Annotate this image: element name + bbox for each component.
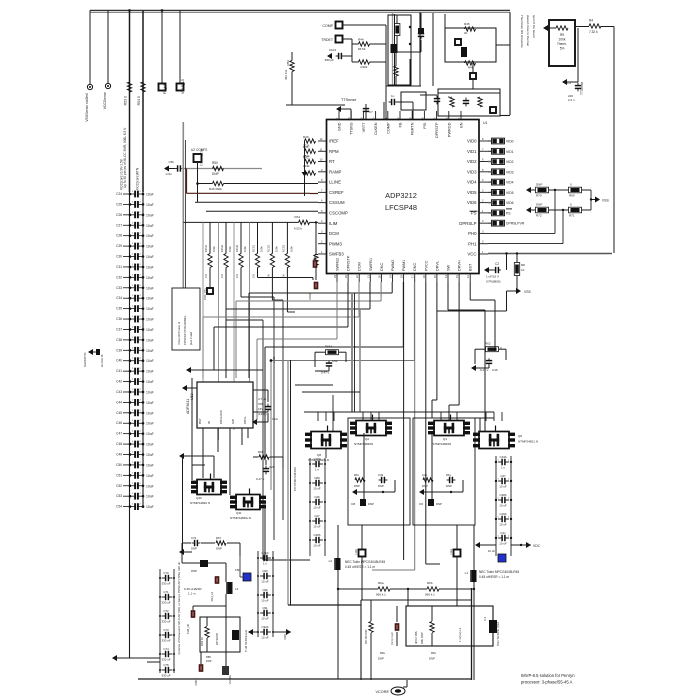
svg-text:10 uF: 10 uF: [261, 636, 269, 640]
svg-text:RAMP: RAMP: [329, 169, 342, 174]
svg-text:VID3: VID3: [506, 170, 514, 174]
svg-text:R4: R4: [589, 19, 593, 23]
node PH3 red tp: [215, 577, 219, 584]
svg-text:C5b: C5b: [235, 568, 241, 572]
svg-text:CLKEN: CLKEN: [374, 122, 378, 135]
wire phase1 box: [413, 418, 475, 525]
node PH3 tp blue: [243, 573, 251, 581]
capacitor C51 10uF: [123, 474, 130, 476]
svg-text:Q1: Q1: [443, 437, 447, 441]
svg-text:10 uF: 10 uF: [499, 485, 507, 489]
resistor R62: [486, 347, 499, 352]
resistor R60b: [259, 455, 269, 459]
capacitor C27 10uF: [123, 224, 130, 226]
wire cl join: [393, 51, 422, 53]
wire PH0: [488, 232, 555, 234]
wire cssum: [195, 201, 318, 203]
svg-text:(mm) 1 uF: (mm) 1 uF: [390, 632, 394, 645]
resistor R54: [141, 82, 145, 92]
wire left col to bottom: [142, 662, 144, 677]
svg-text:VCORE: VCORE: [228, 675, 232, 684]
svg-text:spot of the board: spot of the board: [532, 15, 536, 38]
svg-text:C72: C72: [163, 609, 169, 613]
svg-text:10uF: 10uF: [146, 193, 154, 197]
svg-text:R62: R62: [485, 342, 491, 346]
svg-text:10uF: 10uF: [146, 318, 154, 322]
svg-text:U1b: U1b: [354, 549, 358, 555]
svg-text:10uF: 10uF: [146, 297, 154, 301]
svg-text:C24: C24: [116, 192, 122, 196]
wire u13 left: [185, 387, 197, 389]
capacitor C4b3 1 n: [260, 557, 264, 559]
svg-text:10 uF: 10 uF: [261, 599, 269, 603]
svg-text:TTSense: TTSense: [580, 81, 584, 95]
svg-text:Up to 30 pieces of MLCC 9MR, 9: Up to 30 pieces of MLCC 9MR, 906L 6.3 V: [123, 127, 127, 188]
capacitor C90 10 uF: [260, 575, 264, 577]
svg-text:C46: C46: [116, 421, 122, 425]
capacitor C459 1 n: [312, 463, 316, 465]
svg-text:330 uF: 330 uF: [162, 674, 171, 678]
svg-text:L3: L3: [235, 587, 239, 591]
node TRDET test pad: [336, 36, 343, 43]
svg-text:C43: C43: [116, 390, 122, 394]
svg-text:100k: 100k: [559, 38, 566, 42]
svg-text:330 uF: 330 uF: [162, 582, 171, 586]
svg-text:2.2 n: 2.2 n: [568, 98, 575, 102]
svg-text:10 uF: 10 uF: [313, 487, 321, 491]
svg-text:PH6_U5: PH6_U5: [186, 623, 190, 633]
transistor Q41 NTMFS4846N: [236, 495, 260, 510]
node VSS arrow2: [516, 288, 521, 294]
svg-text:RPH3: RPH3: [235, 245, 239, 252]
node C2 gnd arrow: [484, 267, 489, 273]
resistor RCS3: [285, 254, 289, 268]
node tp in box: [455, 39, 461, 45]
svg-text:C4b: C4b: [422, 473, 428, 477]
svg-text:DPRSLP: DPRSLP: [459, 221, 476, 226]
svg-text:R50: R50: [212, 161, 218, 165]
svg-text:VID5: VID5: [506, 191, 514, 195]
svg-text:DNP: DNP: [429, 657, 435, 661]
wire comp: [343, 24, 387, 26]
wire csref gray pair: [182, 122, 184, 290]
svg-text:DNC: DNC: [380, 263, 384, 271]
node ladder tp: [207, 288, 213, 294]
svg-text:452 1%: 452 1%: [284, 69, 288, 80]
svg-text:U1: U1: [483, 121, 488, 125]
svg-text:NTMFS4846+N: NTMFS4846+N: [230, 516, 251, 520]
capacitor C54 10uF: [123, 506, 130, 508]
svg-text:7.32 k: 7.32 k: [589, 30, 598, 34]
wire staircase 6: [336, 282, 338, 339]
svg-text:VID5: VID5: [467, 190, 477, 195]
svg-text:C79: C79: [191, 536, 197, 540]
svg-text:NEC Tokin MPCG4045LR45: NEC Tokin MPCG4045LR45: [479, 570, 519, 574]
svg-text:R6y: R6y: [446, 473, 452, 477]
svg-text:DNP: DNP: [191, 569, 197, 573]
svg-text:VID6: VID6: [506, 201, 514, 205]
svg-text:10uF: 10uF: [146, 432, 154, 436]
svg-text:DCM: DCM: [358, 262, 362, 271]
svg-text:C39: C39: [116, 348, 122, 352]
svg-text:R69: R69: [569, 194, 575, 198]
wire R8 to VSS: [516, 276, 518, 292]
svg-text:10uF: 10uF: [146, 213, 154, 217]
box comp cluster: [388, 15, 411, 85]
wire phase3 wiring: [191, 378, 193, 480]
svg-text:0.4: 0.4: [483, 617, 487, 621]
wire therm down: [577, 28, 579, 82]
svg-text:C52: C52: [116, 484, 122, 488]
svg-text:processor: 3-phase/55-45 A: processor: 3-phase/55-45 A: [521, 680, 573, 685]
svg-text:5%: 5%: [560, 47, 565, 51]
svg-text:C35: C35: [116, 307, 122, 311]
capacitor C92: [328, 361, 330, 363]
capacitor C46 10uF: [123, 422, 130, 424]
svg-text:C91: C91: [262, 606, 268, 610]
svg-text:10uF: 10uF: [146, 411, 154, 415]
svg-text:C46: C46: [492, 368, 498, 372]
svg-text:100k: 100k: [212, 246, 216, 252]
svg-text:DRVL: DRVL: [435, 261, 439, 271]
resistor R65 DNP: [423, 478, 433, 482]
svg-text:C40: C40: [116, 359, 122, 363]
wire drvh jog: [458, 282, 460, 405]
svg-text:placed close to thermal: placed close to thermal: [526, 15, 530, 46]
wire top loop right: [509, 12, 511, 115]
svg-text:DCM: DCM: [329, 231, 339, 236]
capacitor C30 10uF: [123, 256, 130, 258]
svg-text:DRVH: DRVH: [458, 260, 462, 271]
wire staircase 4: [358, 282, 360, 317]
wire cap column right rail: [142, 186, 144, 508]
capacitor C41 10uF: [123, 370, 130, 372]
svg-text:10 uF: 10 uF: [313, 525, 321, 529]
svg-text:VSS: VSS: [524, 290, 532, 294]
svg-text:C33: C33: [116, 286, 122, 290]
wire cscomp: [206, 210, 318, 212]
svg-text:1n: 1n: [391, 94, 395, 98]
wire capbank gnd: [478, 544, 496, 546]
svg-text:D8: D8: [351, 502, 355, 506]
svg-text:RT: RT: [329, 159, 335, 164]
capacitor C42 10uF: [123, 381, 130, 383]
svg-text:R8x: R8x: [380, 651, 386, 655]
svg-text:PH0: PH0: [468, 231, 477, 236]
svg-text:DNP: DNP: [216, 547, 222, 551]
svg-text:TRDET: TRDET: [321, 38, 334, 42]
wire mid capcol rails: [257, 551, 259, 637]
svg-text:PVCC: PVCC: [424, 260, 428, 271]
svg-text:PH4_L3: PH4_L3: [210, 591, 214, 601]
wire capbank rails: [495, 456, 497, 556]
wire phase1 inner: [431, 433, 433, 499]
node u13 vss arrow: [252, 419, 257, 425]
svg-text:16V: 16V: [258, 407, 263, 411]
svg-text:C25: C25: [116, 202, 122, 206]
wire top VCC bus (double): [90, 9, 510, 11]
wire snub3: [182, 542, 191, 544]
svg-text:4n ASH 16: 4n ASH 16: [100, 354, 104, 367]
resistor R42 249k: [305, 159, 316, 163]
svg-text:C29: C29: [116, 244, 122, 248]
wire phase2 box: [348, 418, 410, 525]
svg-text:10uF: 10uF: [146, 463, 154, 467]
transistor driver U13 ADP3611: [197, 382, 253, 428]
svg-text:1 n: 1 n: [263, 562, 267, 566]
wire VSSsense drop: [89, 10, 91, 84]
capacitor C50 10uF: [123, 464, 130, 466]
svg-text:IN: IN: [207, 421, 211, 424]
resistor R70 DNP: [536, 187, 549, 193]
wire sense inner box: [406, 606, 493, 646]
svg-text:C34: C34: [116, 296, 122, 300]
svg-text:FB: FB: [399, 122, 403, 127]
node tp3: [490, 107, 496, 113]
node mid gnd arrow: [248, 629, 253, 635]
resistor RVID4: [492, 179, 505, 185]
svg-text:R6b: R6b: [258, 450, 264, 454]
wire staircase 8: [413, 282, 415, 361]
node tp red bl: [199, 665, 203, 672]
svg-text:R49 260k: R49 260k: [209, 187, 222, 191]
svg-text:C74: C74: [163, 647, 169, 651]
svg-text:330 uF: 330 uF: [162, 639, 171, 643]
thermistor R9 box: [549, 20, 575, 66]
node VSSsense terminal: [87, 84, 92, 89]
resistor R71: [569, 207, 582, 213]
transistor Q40 NTMFS4846N: [197, 480, 221, 495]
svg-text:VID4: VID4: [506, 181, 514, 185]
svg-text:10 uF: 10 uF: [313, 506, 321, 510]
svg-text:DPRSTP: DPRSTP: [435, 122, 439, 138]
wire staircase 7: [402, 282, 404, 347]
svg-text:RCS2: RCS2: [266, 245, 270, 252]
svg-text:COMP: COMP: [323, 24, 334, 28]
svg-text:10 uF: 10 uF: [499, 542, 507, 546]
svg-text:VID2: VID2: [467, 159, 477, 164]
svg-text:C71: C71: [163, 590, 169, 594]
node PH2 pad: [359, 550, 366, 557]
node VCORE connector: [391, 687, 405, 695]
svg-text:IREF: IREF: [329, 139, 339, 144]
svg-text:VID6: VID6: [467, 200, 477, 205]
svg-text:VID0: VID0: [506, 140, 514, 144]
svg-text:DNP: DNP: [536, 183, 542, 187]
svg-text:10uF: 10uF: [146, 380, 154, 384]
capacitor C6: [420, 31, 422, 34]
svg-text:C51: C51: [116, 473, 122, 477]
resistor R38 zigzag: [394, 66, 398, 76]
transistor Q9 NTMFS4821N: [479, 432, 509, 449]
capacitor C47 10uF: [123, 433, 130, 435]
svg-text:R53 0: R53 0: [124, 96, 128, 105]
svg-text:0.45 uH/ESR = 1.1 m: 0.45 uH/ESR = 1.1 m: [479, 575, 510, 579]
resistor R66A: [326, 350, 339, 355]
capacitor C2: [493, 269, 496, 271]
capacitor C92b 10 uF: [260, 631, 264, 633]
resistor R4 7.32k: [589, 24, 601, 28]
resistor R46: [465, 61, 476, 65]
capacitor C53 10uF: [123, 495, 130, 497]
transistor Q30 NTMFS4846N: [311, 432, 341, 449]
wire u13 bottom stubs: [202, 428, 204, 478]
svg-text:DNP: DNP: [354, 484, 360, 488]
capacitor C52 10uF: [123, 485, 130, 487]
resistor R64 DNP: [355, 478, 365, 482]
capacitor C44 10uF: [123, 401, 130, 403]
wire vin rail phases: [304, 411, 494, 413]
svg-text:10uF: 10uF: [146, 359, 154, 363]
capacitor C48b 10 uF: [498, 499, 502, 501]
svg-text:330 uF: 330 uF: [162, 601, 171, 605]
capacitor C27 10 uF: [312, 520, 316, 522]
svg-text:DNP: DNP: [191, 547, 197, 551]
svg-text:RCS1: RCS1: [252, 245, 256, 252]
capacitor C4x 10 uF: [498, 537, 502, 539]
svg-text:L1: L1: [465, 571, 469, 575]
capacitor C26 10uF: [123, 214, 130, 216]
svg-text:DNP: DNP: [422, 484, 428, 488]
svg-text:1 m(rev) L1: 1 m(rev) L1: [458, 627, 462, 642]
capacitor C36 10uF: [123, 318, 130, 320]
svg-text:VCCSense: VCCSense: [103, 92, 107, 109]
capacitor C45 10uF: [123, 412, 130, 414]
svg-text:330 uF: 330 uF: [162, 658, 171, 662]
component Q dark in box: [461, 47, 467, 57]
svg-text:C31: C31: [116, 265, 122, 269]
resistor R41 280k: [305, 149, 316, 153]
svg-text:DNP: DNP: [436, 502, 442, 506]
wire rcs1 bottom: [258, 277, 314, 279]
svg-text:C4b3: C4b3: [262, 551, 269, 555]
box crowbar: [445, 28, 496, 62]
svg-text:CSREF_C5+: CSREF_C5+: [200, 148, 204, 166]
wire cluster join: [438, 92, 500, 94]
svg-text:IMVP-6.5 solution for Penryn: IMVP-6.5 solution for Penryn: [521, 673, 575, 678]
svg-text:10uF: 10uF: [146, 234, 154, 238]
svg-text:R6b: R6b: [427, 581, 433, 585]
capacitor C46: [488, 358, 490, 360]
overline PS: [470, 210, 478, 212]
svg-text:C75: C75: [163, 663, 169, 667]
capacitor C70 330uF: [162, 577, 166, 579]
capacitor C43b 1 n: [498, 461, 502, 463]
svg-text:VID2: VID2: [506, 160, 514, 164]
wire power box bottom: [138, 678, 472, 680]
node VCCsense terminal: [105, 83, 110, 88]
svg-text:C47: C47: [500, 474, 506, 478]
resistor R81 DNP: [369, 622, 373, 633]
svg-text:10uF: 10uF: [146, 443, 154, 447]
svg-text:PS: PS: [506, 211, 511, 215]
capacitor C35 10uF: [123, 308, 130, 310]
wire SW1 heavy: [359, 310, 361, 412]
svg-text:10uF: 10uF: [146, 245, 154, 249]
svg-text:R84 10: R84 10: [200, 637, 204, 646]
svg-text:VCC: VCC: [467, 252, 476, 257]
wire pvcc down: [425, 282, 427, 564]
svg-text:PWRGD: PWRGD: [447, 122, 451, 137]
capacitor C40 10uF: [123, 360, 130, 362]
svg-text:BST: BST: [469, 263, 473, 271]
node tp dark bl: [222, 666, 229, 675]
svg-text:10 uF: 10 uF: [488, 549, 495, 553]
svg-text:C30: C30: [116, 255, 122, 259]
resistor R55: [213, 181, 224, 185]
svg-text:C47: C47: [116, 432, 122, 436]
wire sense mid: [407, 589, 409, 606]
svg-text:10uF: 10uF: [146, 495, 154, 499]
wire power box left edge: [287, 360, 289, 605]
note box POSCAP: [172, 288, 200, 350]
resistor RVID5: [492, 189, 505, 195]
svg-text:100k: 100k: [260, 246, 264, 252]
inductor L3: [228, 582, 233, 594]
wire pwm1 deep: [403, 347, 405, 560]
resistor RVID3: [492, 169, 505, 175]
wire ph3 left rail: [179, 453, 184, 459]
svg-text:ADP3212: ADP3212: [385, 191, 417, 200]
svg-text:DNC: DNC: [413, 263, 417, 271]
svg-text:100k: 100k: [243, 246, 247, 252]
svg-text:C73: C73: [163, 628, 169, 632]
svg-text:10uF: 10uF: [146, 338, 154, 342]
svg-text:X7R(0805): X7R(0805): [486, 280, 501, 284]
diode D9 DNP: [200, 560, 208, 567]
svg-text:1 n: 1 n: [315, 468, 319, 472]
box c9 cluster: [401, 92, 426, 110]
capacitor C1A: [267, 404, 269, 407]
svg-text:4.53 k: 4.53 k: [294, 227, 303, 231]
resistor RPH2: [224, 254, 228, 268]
wire staircase 5: [347, 282, 349, 327]
svg-text:RPM: RPM: [329, 149, 339, 154]
node phase2 arrow: [352, 489, 357, 495]
svg-text:C49: C49: [116, 453, 122, 457]
svg-text:Q40: Q40: [196, 496, 202, 500]
svg-text:Therm.: Therm.: [557, 42, 567, 46]
wire lline: [224, 183, 319, 185]
svg-text:4.7 uF: 4.7 uF: [258, 397, 267, 401]
capacitor C47 10 uF: [498, 480, 502, 482]
node thermistor arrow: [543, 25, 548, 31]
svg-text:10uF: 10uF: [146, 349, 154, 353]
node VDD arrow: [286, 629, 291, 635]
svg-text:SWFB3: SWFB3: [329, 252, 344, 257]
svg-text:VID4: VID4: [467, 180, 477, 185]
resistor RPH1: [208, 254, 212, 268]
wire drain stubs 371: [362, 412, 364, 421]
svg-text:C44: C44: [116, 400, 122, 404]
svg-text:C2b: C2b: [269, 465, 275, 469]
svg-text:EN: EN: [460, 122, 464, 128]
resistor R8 10: [514, 263, 519, 276]
svg-text:VSS: VSS: [602, 199, 610, 203]
resistor RVID2: [492, 159, 505, 165]
transistor Q10 NTMFS4846N: [434, 421, 464, 436]
svg-text:SWFB1: SWFB1: [369, 258, 373, 271]
wire trdet: [343, 38, 353, 40]
resistor R69: [569, 187, 582, 193]
svg-text:LLINE: LLINE: [329, 180, 341, 185]
wire ladder jog6: [286, 268, 288, 313]
svg-text:PH1 SCOPE USd: PH1 SCOPE USd: [496, 622, 500, 646]
svg-text:2k: 2k: [464, 31, 468, 35]
box lower right cluster: [438, 89, 500, 116]
capacitor C74 330uF: [162, 653, 166, 655]
capacitor C38 10uF: [123, 339, 130, 341]
